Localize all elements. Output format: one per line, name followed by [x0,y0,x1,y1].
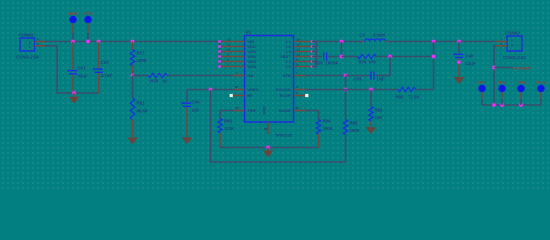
U1 pin L5 [294,66,312,68]
svg-text:1: 1 [511,39,513,43]
U1 pin L2 [294,46,312,48]
U1 pin VBST [294,56,312,58]
node junction TP bus 3 [519,103,524,108]
ground [127,138,137,144]
svg-text:C05: C05 [315,61,323,66]
node junction VOUT/C40 [457,39,462,44]
resistor R85 [345,90,347,120]
svg-text:VFB: VFB [283,73,291,78]
wire R80 riser to VOUT [433,42,435,90]
svg-text:CONN3: CONN3 [505,30,521,35]
svg-text:R76: R76 [359,60,367,65]
U1 pin RCVP unconnected [294,95,306,97]
svg-text:100K: 100K [350,128,361,133]
node junction R77/R78/R81 [130,73,135,78]
wire to net label [494,67,513,69]
wire VIN main rail [45,41,220,43]
node junction ground rail [72,91,77,96]
CONN2 pin 1 [35,45,46,47]
svg-text:14: 14 [297,47,301,51]
U1 pin VIN3 [221,61,245,63]
wire CONN2 pin1 to ground rail [45,46,99,93]
svg-text:22uF: 22uF [466,61,476,66]
svg-text:2: 2 [511,43,513,47]
svg-text:10K: 10K [375,115,384,120]
svg-text:100K: 100K [323,126,334,131]
svg-text:71.5K: 71.5K [408,95,420,100]
svg-text:1uF: 1uF [192,108,200,113]
svg-text:R83: R83 [224,119,232,124]
svg-text:MODE: MODE [279,108,291,113]
svg-text:12: 12 [227,37,231,41]
capacitor C03 [346,75,371,77]
node junction WTP2 [86,39,91,44]
svg-text:21: 21 [236,106,240,110]
svg-text:86.6K: 86.6K [137,109,149,114]
resistor R76 [342,56,358,58]
U1 pin RF unconnected [233,95,245,97]
svg-text:16: 16 [297,37,301,41]
svg-text:3.3uH: 3.3uH [373,33,385,38]
wire bootstrap riser [341,42,343,57]
svg-text:R81: R81 [137,101,145,106]
node junction TP bus 2 [500,103,505,108]
svg-text:VREG: VREG [247,87,258,92]
U1 pin L3 [294,51,312,53]
node junction bootstrap [339,39,344,44]
svg-text:976: 976 [369,60,377,65]
wire SW to inductor [317,41,363,43]
svg-text:1K: 1K [162,78,168,83]
svg-text:L5: L5 [286,64,291,69]
wire VREG to C04 [187,89,233,91]
wire bottom gnd bus [220,147,319,149]
svg-text:RCVP: RCVP [280,93,291,98]
node junction VFB [343,73,348,78]
U1 pin ON [233,75,245,77]
CONN3 pin 2 [496,45,507,47]
resistor R77 [132,42,134,50]
U1 pin L4 [294,61,312,63]
svg-text:R82: R82 [375,108,383,113]
U1 pin VIN1 [221,51,245,53]
U1 pin PGOOD [294,89,306,91]
U1 pin VFB [294,75,306,77]
CONN3 pin 1 [495,41,507,43]
node junction WTP1/C01 [71,39,76,44]
node junction C02 [96,39,101,44]
wire WTP2 down [87,33,89,42]
svg-text:10: 10 [227,47,231,51]
svg-text:GND: GND [263,106,267,115]
resistor R83 [220,110,233,112]
svg-text:R80: R80 [396,95,404,100]
U1 pin TRIP [233,110,245,112]
capacitor C40 [458,42,460,54]
connector CONN3 [507,36,522,51]
svg-text:23: 23 [264,127,268,131]
wire C03 riser [389,57,391,76]
wire right pin bus SW [316,42,318,67]
svg-text:R78: R78 [150,78,158,83]
wire VFB to C03 [305,75,346,77]
svg-text:TRIP: TRIP [247,108,256,113]
node junction R82 [369,87,374,92]
wire test point bus [482,104,541,106]
wire PGOOD net [305,89,398,91]
node junction FB/PGOOD [343,87,348,92]
connector CONN2 [20,38,35,51]
ground [454,77,464,83]
node junction R77 [130,39,135,44]
svg-text:15: 15 [297,42,301,46]
svg-text:1NF: 1NF [377,76,385,81]
U1 pin L1 [294,41,312,43]
wire R78 to ON pin [167,75,233,77]
resistor R81 [132,76,134,99]
wire left pin bus [219,42,221,67]
svg-text:C40: C40 [466,54,474,59]
CONN2 pin 2 [35,41,46,43]
svg-text:100K: 100K [137,58,148,63]
svg-text:100NF: 100NF [326,61,339,66]
svg-text:C03: C03 [354,76,362,81]
U1 pin VIN4 [221,66,245,68]
node junction gnd bus [266,145,271,150]
inductor L3 [362,41,365,43]
U1 pin GND [267,122,269,134]
svg-text:TPS62130: TPS62130 [275,134,292,138]
svg-text:CONG-2.54: CONG-2.54 [503,55,526,60]
svg-text:R84: R84 [323,119,331,124]
node junction C05/R76 [339,54,344,59]
capacitor C02 [98,42,100,69]
svg-text:18: 18 [235,85,239,89]
node junction TP bus 1 [492,103,497,108]
node junction R76/C03 riser [388,54,393,59]
capacitor C04 [186,90,188,103]
wire VOUT [388,41,495,43]
svg-text:CC GNDC: CC GNDC [514,67,532,71]
svg-text:4.7uF: 4.7uF [101,73,113,78]
svg-text:20: 20 [296,106,300,110]
svg-text:C04: C04 [192,100,200,105]
wire outer loop VREG to R85 bottom [211,90,346,163]
svg-text:C01: C01 [78,66,86,71]
svg-text:CONN2: CONN2 [19,32,35,37]
svg-text:R77: R77 [137,51,145,56]
svg-text:CONG-2.54: CONG-2.54 [16,55,39,60]
svg-text:R85: R85 [350,121,358,126]
capacitor C05 [317,56,323,58]
resistor R84 [305,110,319,112]
wire CONN3 pin2 down [494,46,496,105]
resistor R82 [370,90,372,107]
ground [366,127,376,133]
grid dots [0,0,550,190]
resistor R78 [133,75,149,77]
ground [73,93,75,97]
node junction VOUT/R80 riser [431,39,436,44]
svg-text:U1: U1 [246,30,252,35]
capacitor C01 [72,42,74,71]
svg-text:PGOOD: PGOOD [276,87,291,92]
wire WTP1 down [72,33,74,42]
svg-text:VIN4: VIN4 [247,64,257,69]
IC U1 TPS62130 body [245,36,294,123]
ground [182,137,192,143]
U1 pin VREG [233,89,245,91]
node junction riser mid [431,54,436,59]
node junction VREG riser [208,87,213,92]
ground [267,148,269,151]
svg-text:33uF: 33uF [78,74,88,79]
U1 pin VDD [221,46,245,48]
node junction gnd label [492,65,497,70]
wire FB down [345,76,347,90]
svg-text:11: 11 [227,42,231,46]
svg-text:121K: 121K [224,126,235,131]
svg-text:C02: C02 [101,60,109,65]
U1 pin MODE [294,110,306,112]
U1 pin VIN2 [221,56,245,58]
U1 pin VIN [221,41,245,43]
svg-text:L3: L3 [360,33,366,38]
svg-text:1: 1 [29,45,31,49]
svg-text:ON: ON [247,73,253,78]
resistor R80 [398,87,416,91]
svg-text:13: 13 [297,52,301,56]
svg-text:RF: RF [247,93,253,98]
